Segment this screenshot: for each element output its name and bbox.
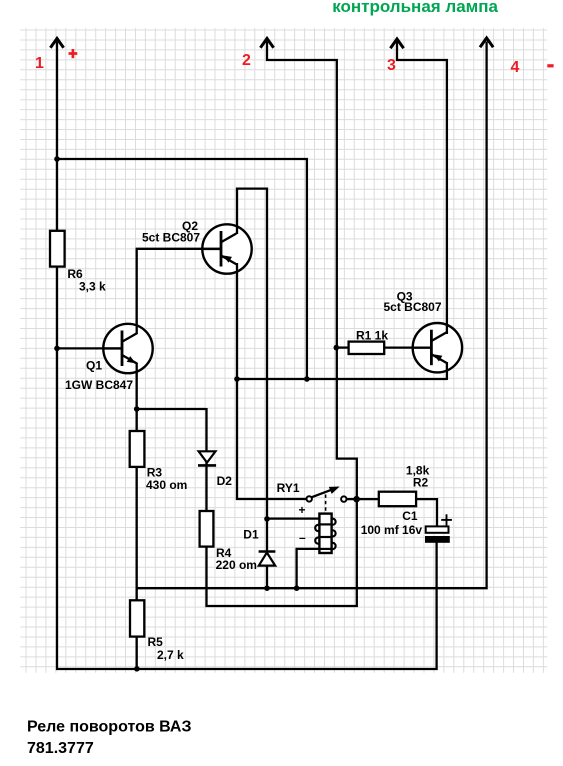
svg-text:2,7 k: 2,7 k — [157, 648, 184, 662]
svg-text:C1: C1 — [402, 509, 418, 523]
svg-text:2: 2 — [242, 52, 251, 69]
svg-text:D1: D1 — [243, 528, 259, 542]
svg-text:контрольная лампа: контрольная лампа — [332, 0, 498, 16]
svg-text:R2: R2 — [413, 476, 429, 490]
svg-text:5ct BC807: 5ct BC807 — [142, 230, 200, 244]
svg-text:1: 1 — [35, 55, 44, 72]
svg-text:3,3 k: 3,3 k — [79, 279, 106, 293]
svg-text:Q1: Q1 — [86, 358, 102, 372]
svg-text:D2: D2 — [217, 474, 233, 488]
svg-text:220 om: 220 om — [216, 558, 257, 572]
svg-text:R1 1k: R1 1k — [356, 329, 388, 343]
svg-text:Реле поворотов ВАЗ: Реле поворотов ВАЗ — [27, 719, 191, 736]
svg-text:+: + — [298, 503, 305, 517]
svg-text:RY1: RY1 — [277, 481, 300, 495]
svg-text:3: 3 — [387, 57, 396, 74]
svg-text:1GW BC847: 1GW BC847 — [65, 378, 133, 392]
svg-text:R5: R5 — [148, 635, 164, 649]
svg-text:4: 4 — [511, 59, 520, 76]
svg-text:5ct BC807: 5ct BC807 — [384, 300, 442, 314]
svg-text:430 om: 430 om — [146, 478, 187, 492]
svg-text:781.3777: 781.3777 — [27, 740, 94, 757]
svg-text:100 mf 16v: 100 mf 16v — [361, 523, 423, 537]
svg-text:–: – — [299, 530, 306, 544]
